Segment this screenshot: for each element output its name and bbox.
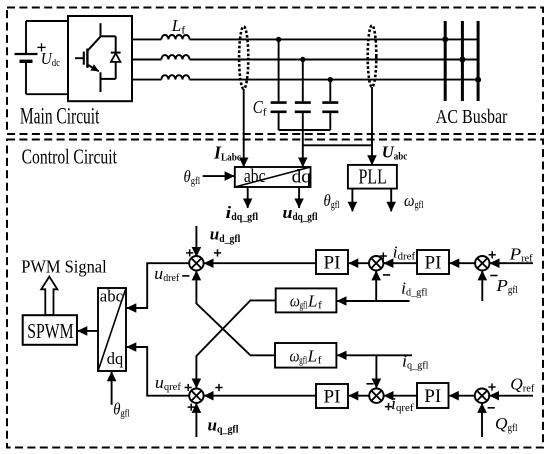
svg-text:f: f [263, 107, 267, 118]
svg-text:gfl: gfl [299, 301, 307, 312]
svg-text:θ: θ [113, 399, 120, 418]
svg-text:U: U [382, 142, 395, 161]
svg-text:L: L [307, 346, 318, 365]
svg-text:dref: dref [163, 273, 179, 284]
svg-text:Q: Q [495, 414, 508, 433]
svg-text:θ: θ [324, 191, 331, 210]
svg-text:u: u [208, 416, 218, 435]
svg-text:dc: dc [52, 58, 61, 69]
svg-text:d_gfl: d_gfl [219, 234, 240, 245]
svg-text:PLL: PLL [359, 165, 387, 189]
svg-text:ref: ref [523, 384, 535, 395]
svg-text:dq: dq [292, 167, 312, 188]
svg-text:ref: ref [521, 254, 533, 265]
svg-text:PI: PI [425, 253, 442, 274]
svg-text:θ: θ [184, 167, 191, 186]
svg-text:abc: abc [244, 166, 266, 187]
svg-text:dq: dq [107, 349, 124, 368]
svg-text:PI: PI [324, 253, 341, 274]
svg-text:gfl: gfl [508, 423, 518, 434]
svg-text:abc: abc [100, 286, 124, 305]
svg-text:gfl: gfl [508, 285, 518, 296]
svg-text:Control Circuit: Control Circuit [22, 144, 117, 168]
svg-text:u: u [155, 373, 164, 392]
svg-text:gfl: gfl [191, 176, 201, 187]
svg-text:Labc: Labc [221, 153, 241, 164]
svg-text:dq_gfl: dq_gfl [293, 212, 318, 223]
svg-text:qref: qref [164, 382, 182, 393]
svg-text:u: u [283, 203, 293, 222]
svg-text:P: P [508, 245, 521, 264]
svg-text:d_gfl: d_gfl [406, 288, 428, 299]
svg-text:L: L [307, 291, 318, 310]
svg-text:PWM Signal: PWM Signal [21, 257, 107, 277]
svg-text:gfl: gfl [120, 409, 130, 420]
svg-text:dref: dref [398, 252, 416, 263]
svg-text:L: L [171, 16, 182, 35]
svg-text:ω: ω [290, 291, 300, 310]
svg-text:gfl: gfl [331, 200, 340, 211]
svg-text:q_gfl: q_gfl [217, 425, 239, 436]
svg-text:AC Busbar: AC Busbar [436, 107, 508, 128]
svg-text:gfl: gfl [299, 356, 307, 367]
svg-text:Main Circuit: Main Circuit [20, 104, 100, 129]
svg-text:q_gfl: q_gfl [407, 361, 429, 372]
svg-text:u: u [154, 264, 163, 283]
svg-text:u: u [210, 225, 220, 244]
svg-text:gfl: gfl [415, 200, 424, 211]
svg-text:abc: abc [394, 152, 408, 163]
svg-text:ω: ω [404, 191, 415, 210]
svg-text:SPWM: SPWM [27, 319, 74, 343]
svg-text:PI: PI [324, 387, 341, 408]
svg-text:Q: Q [510, 375, 523, 394]
svg-text:PI: PI [424, 386, 441, 407]
svg-text:qref: qref [396, 403, 414, 414]
svg-text:dq_gfl: dq_gfl [231, 212, 258, 223]
svg-text:P: P [495, 276, 508, 295]
svg-text:ω: ω [290, 346, 300, 365]
